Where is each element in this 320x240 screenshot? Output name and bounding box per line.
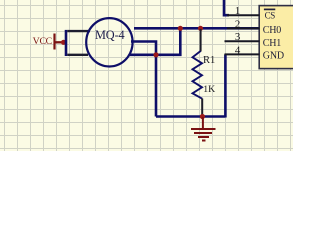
junction dot node at ground riser (153, 52, 158, 57)
sheet grid (0, 0, 293, 151)
junction dot node at output riser (178, 26, 183, 31)
ground symbol bar4 (202, 140, 206, 142)
connector pin 2 line (227, 27, 260, 29)
wire sensor output top to CH0 (134, 27, 260, 30)
svg-text:1: 1 (235, 5, 240, 17)
svg-text:R1: R1 (203, 55, 215, 66)
resistor R1 (200, 29, 202, 52)
wire sensor right middle (131, 42, 156, 117)
svg-text:CH1: CH1 (263, 38, 281, 49)
junction dot node at ground symbol (200, 114, 205, 119)
wire left bottom (heater pin) (67, 54, 88, 56)
wire left bracket vertical (65, 30, 68, 56)
wire pin4 to rail (224, 54, 227, 117)
ground symbol bar2 (194, 132, 212, 134)
wire ground rail (156, 115, 225, 118)
svg-text:VCC: VCC (33, 36, 52, 47)
wire VCC stub (55, 41, 67, 43)
wire sensor right bottom (130, 27, 180, 55)
connector pin 1 line (227, 14, 260, 16)
svg-text:MQ-4: MQ-4 (95, 28, 125, 42)
svg-text:1K: 1K (203, 84, 215, 95)
svg-text:GND: GND (263, 51, 284, 62)
wire left top (heater pin) (67, 30, 90, 32)
svg-text:4: 4 (235, 44, 241, 56)
wire CS to top edge (224, 0, 229, 15)
ground symbol bar1 (191, 128, 216, 130)
svg-text:CS: CS (265, 10, 276, 20)
connector pin 3 line (225, 40, 260, 42)
ground symbol stub (202, 117, 204, 129)
sheet background (0, 0, 293, 151)
connector pin 4 line (225, 53, 260, 55)
junction dot node at R1 top (198, 26, 203, 31)
ground symbol bar3 (198, 136, 209, 138)
junction VCC node (61, 40, 66, 45)
connector J1 body (259, 6, 304, 69)
resistor R1 zigzag body (193, 51, 203, 99)
power port VCC bar (53, 34, 55, 50)
svg-text:2: 2 (235, 18, 240, 30)
pin name CS overline (264, 8, 275, 10)
resistor R1 bottom pin (201, 99, 203, 117)
svg-text:3: 3 (235, 31, 240, 43)
svg-text:CH0: CH0 (263, 25, 281, 36)
sensor U1 MQ-4 body (86, 18, 132, 66)
